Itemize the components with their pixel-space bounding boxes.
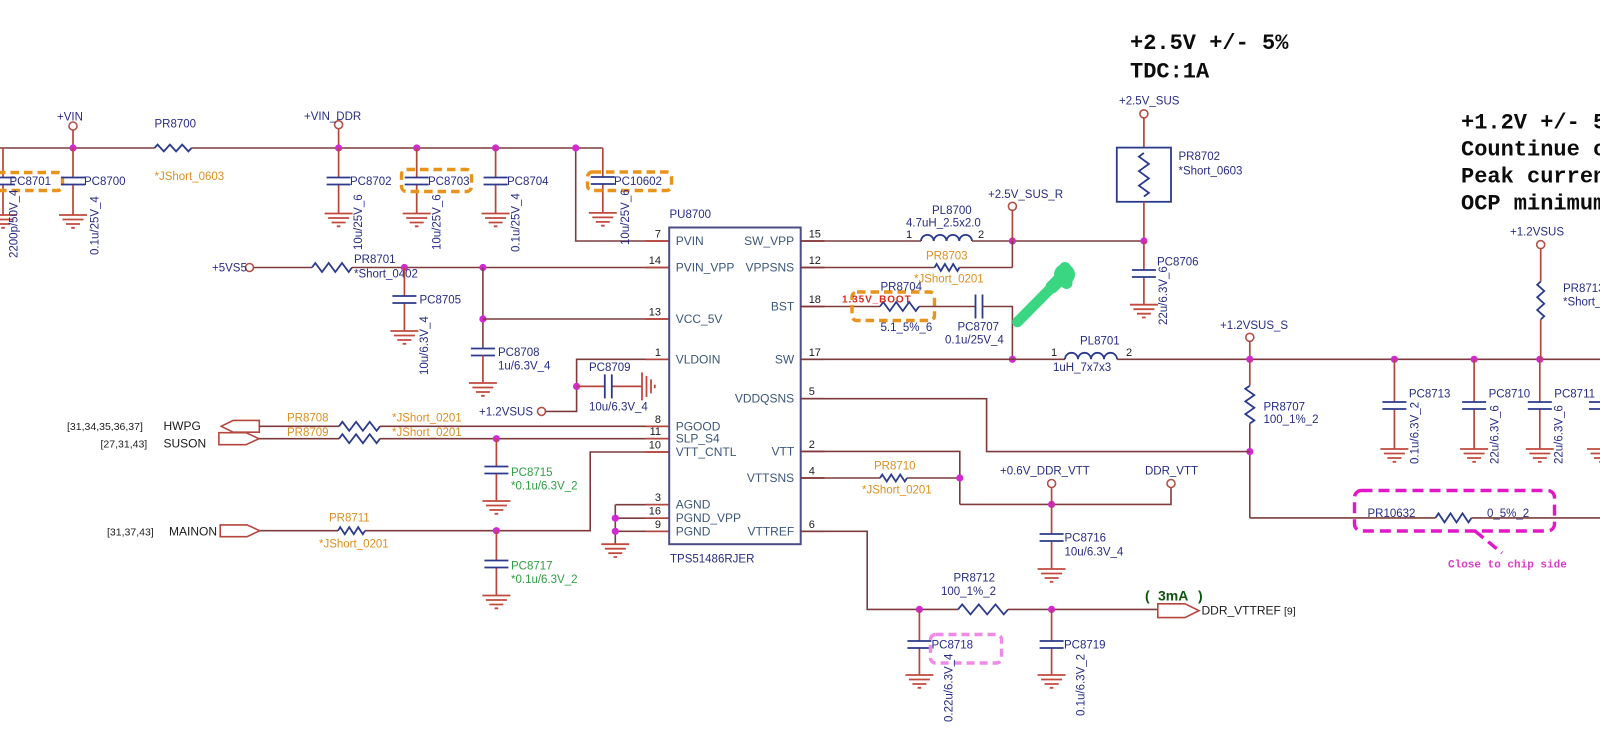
wire +2.5V_SUS_R riser (1011, 210, 1013, 241)
svg-text:Peak curren: Peak curren (1461, 165, 1600, 190)
svg-text:VTTREF: VTTREF (748, 524, 795, 538)
svg-text:PC8700: PC8700 (84, 176, 126, 188)
wire PR8712 to DDR_VTTREF arrow (1008, 608, 1158, 610)
wire ground bus vertical (614, 505, 616, 545)
svg-text:VDDQSNS: VDDQSNS (735, 392, 794, 406)
ground under PC8715 (482, 501, 510, 514)
wire PR8710 to VTT node (907, 477, 960, 479)
capacitor PC10602 plates (591, 177, 615, 184)
capacitor PC8708 plates (471, 349, 495, 356)
terminal DDR_VTT (1167, 480, 1175, 488)
junction PC8713 node (1391, 356, 1398, 363)
svg-text:PGND: PGND (676, 524, 711, 538)
capacitor PC8705 plates (392, 296, 416, 303)
junction PC8711 node (1536, 356, 1543, 363)
svg-text:VTT: VTT (772, 444, 795, 458)
wire PR8713 to rail (1540, 320, 1542, 360)
svg-text:Countinue cu: Countinue cu (1461, 138, 1600, 163)
pink dashed box around PC8718 (931, 635, 1002, 664)
svg-text:*Short_0402: *Short_0402 (1563, 297, 1600, 309)
wire PL8700 to +2.5V_SUS node (972, 240, 1144, 242)
capacitor PC8719 plates (1040, 641, 1064, 648)
junction PC8710 node (1471, 356, 1478, 363)
wire PR8702 to rail (1143, 202, 1145, 241)
ground under PC8713 (1380, 449, 1408, 462)
resistor PR8702 zigzag (1139, 153, 1149, 197)
wire +1.2VSUS_S riser (1249, 341, 1251, 359)
wire SW_VPP pin 15 to PL8700 (801, 240, 921, 242)
svg-text:[27,31,43]: [27,31,43] (101, 439, 148, 451)
resistor PR8710 (880, 475, 907, 482)
ground under PC8702 (325, 214, 353, 227)
capacitor PC8701 plates (0, 178, 15, 185)
svg-text:PR8702: PR8702 (1179, 151, 1221, 163)
svg-text:7: 7 (655, 229, 661, 241)
svg-text:17: 17 (809, 347, 821, 359)
svg-text:PR8708: PR8708 (287, 413, 329, 425)
svg-text:10u/25V_6: 10u/25V_6 (432, 194, 444, 250)
orange dashed box around PC10602 (588, 172, 672, 191)
junction PC8718 node (916, 606, 923, 613)
resistor PR8700 (155, 145, 192, 152)
svg-text:100_1%_2: 100_1%_2 (1264, 414, 1319, 426)
svg-text:14: 14 (649, 255, 661, 267)
wire lead capacitor PC8706 (1143, 241, 1145, 305)
resistor PR8702 box (1117, 148, 1171, 202)
svg-text:22u/6.3V_6: 22u/6.3V_6 (1158, 266, 1170, 325)
ground under PC8705 (390, 331, 418, 344)
junction PC8703 node (413, 144, 420, 151)
port arrow MAINON (220, 525, 260, 537)
svg-text:10u/25V_6: 10u/25V_6 (620, 189, 632, 245)
svg-text:100_1%_2: 100_1%_2 (941, 586, 996, 598)
svg-text:PC8713: PC8713 (1409, 389, 1451, 401)
orange dashed box around PC8703 (402, 170, 472, 192)
svg-text:VTT_CNTL: VTT_CNTL (676, 445, 737, 459)
wire +1.2VSUS to PR8713 (1540, 249, 1542, 282)
svg-text:PR8700: PR8700 (155, 119, 197, 131)
capacitor PC8703 plates (405, 178, 429, 185)
wire PR8708 to PGOOD pin 8 (380, 425, 669, 427)
ground under PC8708 (469, 383, 497, 396)
resistor PR10632 (1436, 513, 1472, 522)
svg-text:*JShort_0201: *JShort_0201 (319, 539, 389, 551)
wire +2.5V_SUS to PR8702 (1143, 118, 1145, 148)
wire +VIN rail left segment (0, 147, 155, 149)
svg-text:+2.5V +/- 5%: +2.5V +/- 5% (1130, 31, 1289, 56)
svg-text:PC8710: PC8710 (1489, 389, 1531, 401)
svg-text:2: 2 (809, 439, 815, 451)
svg-text:VPPSNS: VPPSNS (746, 261, 795, 275)
resistor PR8711 (338, 527, 365, 534)
svg-text:VCC_5V: VCC_5V (676, 312, 723, 326)
svg-text:22u/6.3V_6: 22u/6.3V_6 (1490, 405, 1502, 464)
svg-text:+1.2VSUS: +1.2VSUS (479, 407, 533, 419)
resistor PR8707 (1245, 386, 1254, 424)
svg-text:*0.1u/6.3V_2: *0.1u/6.3V_2 (511, 574, 578, 586)
junction PC8719 node (1048, 606, 1055, 613)
junction +1.2VSUS_S node (1246, 356, 1253, 363)
svg-text:PC8708: PC8708 (498, 347, 540, 359)
resistor PR8708 (339, 422, 380, 431)
wire VPPSNS pin 12 to PR8703 (801, 267, 935, 269)
wire PL8701 to +1.2VSUS_S rail (1117, 358, 1600, 360)
wire lead capacitor PC10602 (602, 148, 604, 213)
junction PC8704 node (492, 144, 499, 151)
svg-text:0.1u/25V_4: 0.1u/25V_4 (90, 196, 102, 255)
wire VTT pin 2 (801, 451, 960, 504)
resistor PR8703 (935, 264, 960, 271)
junction +VIN node (69, 144, 76, 151)
wire HWPG to PR8708 (259, 425, 339, 427)
svg-text:TPS51486RJER: TPS51486RJER (670, 554, 754, 566)
svg-text:DDR_VTT: DDR_VTT (1145, 466, 1198, 478)
ground under PC8700 (59, 215, 87, 228)
svg-text:PC8701: PC8701 (10, 176, 52, 188)
svg-text:*JShort_0201: *JShort_0201 (392, 413, 462, 425)
svg-text:): ) (1198, 588, 1203, 604)
svg-text:2: 2 (1126, 347, 1132, 359)
junction +2.5V_SUS node (1140, 237, 1147, 244)
svg-text:SUSON: SUSON (164, 437, 207, 451)
ground under PC8710 (1460, 449, 1488, 462)
svg-text:13: 13 (649, 307, 661, 319)
op-amp U1 chip PU8700 TPS51486RJER body (669, 228, 801, 545)
capacitor PC8713 plates (1382, 402, 1406, 409)
wire PGND_VPP pin 16 (615, 517, 669, 519)
wire SW pin 17 to PL8701 (801, 358, 1065, 360)
junction PC8709 node (573, 383, 580, 390)
svg-text:PGND_VPP: PGND_VPP (676, 511, 741, 525)
svg-text:SW: SW (775, 352, 795, 366)
wire PR8703 to riser (960, 267, 1013, 269)
junction PC8715 node (493, 435, 500, 442)
wire VDDQSNS pin 5 (801, 399, 1250, 452)
wire lead capacitor PC8717 (495, 531, 497, 596)
svg-text:HWPG: HWPG (164, 419, 201, 433)
svg-text:VLDOIN: VLDOIN (676, 352, 721, 366)
junction VDDQSNS sense node (1246, 448, 1253, 455)
svg-text:PC8719: PC8719 (1064, 640, 1106, 652)
wire lead capacitor PC8713 (1393, 359, 1395, 449)
wire lead capacitor PC8719 (1051, 609, 1053, 675)
svg-text:10u/25V_6: 10u/25V_6 (353, 194, 365, 250)
svg-text:SLP_S4: SLP_S4 (676, 432, 720, 446)
capacitor PC8707 plates (976, 295, 983, 319)
svg-text:TDC:1A: TDC:1A (1130, 60, 1210, 85)
svg-text:PR8704: PR8704 (881, 282, 923, 294)
svg-text:*JShort_0201: *JShort_0201 (862, 485, 932, 497)
green highlighter mark (1017, 287, 1052, 322)
svg-text:PC10602: PC10602 (614, 176, 662, 188)
capacitor PC8709 plates (605, 374, 612, 398)
wire PR8704 to PC8707 (919, 306, 976, 308)
svg-text:2: 2 (978, 229, 984, 241)
wire +VIN rail down to PVIN pin 7 (576, 148, 670, 241)
orange dashed box around PC8701 (0, 173, 63, 191)
wire VTTREF pin 6 (801, 531, 958, 609)
svg-text:PC8702: PC8702 (350, 176, 392, 188)
svg-text:PR8709: PR8709 (287, 427, 329, 439)
wire lead capacitor PC8704 (495, 148, 497, 214)
resistor PR8713 (1537, 282, 1544, 320)
svg-text:3mA: 3mA (1158, 588, 1188, 604)
terminal +5VS5 (246, 264, 254, 272)
svg-text:DDR_VTTREF: DDR_VTTREF (1202, 604, 1281, 618)
wire lead capacitor PC8703 (416, 148, 418, 214)
junction VTTSNS node (956, 474, 963, 481)
wire PR10632 line right (1472, 517, 1600, 519)
wire lead capacitor PC8716 (1051, 504, 1053, 569)
port arrow SUSON (219, 433, 259, 445)
junction VCC_5V pin branch (479, 315, 486, 322)
wire lead capacitor PC8711 (1539, 359, 1541, 449)
svg-text:1: 1 (1051, 347, 1057, 359)
junction +0.6V_DDR_VTT node (1048, 501, 1055, 508)
inductor PL8700 (921, 235, 972, 241)
junction PC8717 node (493, 527, 500, 534)
capacitor PC8706 plates (1132, 270, 1156, 277)
svg-text:PR8713: PR8713 (1563, 283, 1600, 295)
wire lead capacitor PC8708 lower (482, 356, 484, 384)
capacitor PC8712 plates (1589, 402, 1600, 409)
svg-text:+1.2VSUS: +1.2VSUS (1510, 227, 1564, 239)
svg-text:1: 1 (906, 229, 912, 241)
terminal +VIN (69, 122, 77, 130)
svg-text:8: 8 (655, 414, 661, 426)
svg-text:2200p/50V_4: 2200p/50V_4 (9, 189, 21, 258)
ground right of PC8709 (642, 372, 655, 400)
terminal +VIN_DDR (335, 121, 343, 129)
capacitor PC8704 plates (484, 178, 508, 185)
svg-text:PL8701: PL8701 (1080, 336, 1120, 348)
wire +VIN terminal riser (72, 130, 74, 148)
ground under PC8711 (1526, 449, 1554, 462)
junction BST-SW node (1009, 356, 1016, 363)
wire PC8707 down to SW node (983, 307, 1013, 360)
svg-text:PVIN: PVIN (676, 234, 704, 248)
svg-text:PR8710: PR8710 (874, 461, 916, 473)
svg-text:PC8711: PC8711 (1554, 389, 1595, 401)
capacitor PC8700 plates (61, 178, 85, 185)
svg-text:18: 18 (809, 294, 821, 306)
wire BST pin 18 to PR8704 (801, 306, 880, 308)
svg-text:0_5%_2: 0_5%_2 (1487, 508, 1529, 520)
resistor PR8704 (880, 302, 919, 311)
svg-text:PC8709: PC8709 (589, 362, 631, 374)
svg-text:OCP minimum: OCP minimum (1461, 192, 1600, 217)
wire lead capacitor PC8718 (918, 609, 920, 675)
wire stub to PC10602 (576, 147, 603, 149)
terminal +1.2VSUS left (538, 407, 546, 415)
wire VTT bus to DDR_VTT (960, 488, 1171, 505)
svg-text:+5VS5: +5VS5 (212, 263, 247, 275)
svg-text:10: 10 (649, 440, 661, 452)
ground under chip AGND (601, 544, 629, 557)
svg-text:PU8700: PU8700 (670, 209, 712, 221)
junction +VIN_DDR node (335, 144, 342, 151)
svg-text:16: 16 (649, 506, 661, 518)
junction PC10602 node (572, 144, 579, 151)
svg-text:PL8700: PL8700 (932, 205, 972, 217)
terminal +2.5V_SUS_R (1008, 202, 1016, 210)
svg-text:4: 4 (809, 466, 815, 478)
capacitor PC8717 plates (484, 561, 508, 568)
svg-text:0.1u/6.3V_2: 0.1u/6.3V_2 (1076, 654, 1088, 716)
terminal +0.6V_DDR_VTT (1048, 480, 1056, 488)
junction +2.5V_SUS_R node (1009, 237, 1016, 244)
svg-text:SW_VPP: SW_VPP (744, 234, 794, 248)
svg-text:PC8707: PC8707 (958, 322, 1000, 334)
port arrow DDR_VTTREF (1158, 604, 1199, 618)
svg-text:12: 12 (809, 255, 821, 267)
svg-text:PC8717: PC8717 (511, 561, 553, 573)
junction PGND (612, 528, 619, 535)
ground under PC8719 (1038, 675, 1066, 688)
inductor PL8701 (1065, 353, 1117, 359)
svg-text:1uH_7x7x3: 1uH_7x7x3 (1053, 362, 1111, 374)
svg-text:+VIN: +VIN (57, 112, 83, 124)
svg-text:[9]: [9] (1284, 606, 1296, 618)
wire PR8701 to PVIN_VPP pin 14 (352, 267, 669, 269)
svg-text:PR8712: PR8712 (954, 573, 996, 585)
svg-text:Close to chip side: Close to chip side (1448, 560, 1567, 572)
capacitor PC8710 plates (1462, 402, 1486, 409)
wire PR8711 to VTT_CNTL pin 10 (365, 452, 669, 531)
svg-text:10u/6.3V_4: 10u/6.3V_4 (589, 402, 648, 414)
wire AGND pin 3 (615, 504, 669, 506)
wire lead capacitor PC8700 (72, 148, 74, 215)
junction PGND_VPP (612, 515, 619, 522)
magenta leader line (1475, 531, 1502, 553)
svg-text:PC8703: PC8703 (428, 176, 470, 188)
capacitor PC8715 plates (484, 467, 508, 474)
terminal +2.5V_SUS (1140, 110, 1148, 118)
port arrow HWPG (221, 420, 259, 432)
wire lead capacitor PC8715 (495, 439, 497, 501)
svg-text:PR8701: PR8701 (354, 254, 396, 266)
svg-text:+VIN_DDR: +VIN_DDR (304, 111, 361, 123)
svg-text:+2.5V_SUS_R: +2.5V_SUS_R (988, 189, 1063, 201)
wire lead capacitor PC8709 (577, 385, 642, 387)
svg-text:*JShort_0603: *JShort_0603 (155, 171, 225, 183)
ground under PC8704 (482, 214, 510, 227)
wire PR8707 down to PR10632 line (1249, 424, 1251, 518)
svg-text:0.1u/25V_4: 0.1u/25V_4 (511, 193, 523, 252)
svg-text:[31,37,43]: [31,37,43] (107, 527, 154, 539)
svg-text:PC8718: PC8718 (932, 640, 974, 652)
ground under PC8717 (482, 596, 510, 609)
terminal +1.2VSUS right (1537, 241, 1545, 249)
svg-text:PR8707: PR8707 (1264, 402, 1306, 414)
svg-text:0.1u/25V_4: 0.1u/25V_4 (945, 335, 1004, 347)
svg-text:BST: BST (771, 300, 795, 314)
svg-text:*Short_0402: *Short_0402 (354, 269, 418, 281)
svg-text:4.7uH_2.5x2.0: 4.7uH_2.5x2.0 (906, 218, 981, 230)
svg-text:+1.2VSUS_S: +1.2VSUS_S (1220, 320, 1288, 332)
wire +VIN rail middle segment (192, 147, 576, 149)
svg-text:1u/6.3V_4: 1u/6.3V_4 (498, 361, 551, 373)
magenta dashed box around PR10632 (1355, 491, 1555, 532)
svg-text:*JShort_0201: *JShort_0201 (914, 274, 984, 286)
svg-text:6: 6 (809, 519, 815, 531)
svg-text:*JShort_0201: *JShort_0201 (392, 427, 462, 439)
svg-text:PC8705: PC8705 (420, 295, 462, 307)
wire lead capacitor PC8701 (2, 148, 4, 215)
svg-text:+2.5V_SUS: +2.5V_SUS (1119, 96, 1180, 108)
wire lead capacitor PC8710 (1473, 359, 1475, 449)
svg-text:11: 11 (650, 426, 661, 438)
svg-text:PC8716: PC8716 (1065, 533, 1107, 545)
resistor PR8712 (958, 604, 1008, 614)
ground under PC8716 (1038, 569, 1066, 582)
svg-text:PC8715: PC8715 (511, 467, 553, 479)
wire to PR8707 (1249, 359, 1251, 385)
capacitor PC8711 plates (1528, 402, 1552, 409)
wire +0.6V_DDR_VTT riser (1051, 488, 1053, 505)
svg-text:AGND: AGND (676, 498, 711, 512)
pin stubs left side (646, 241, 670, 531)
svg-text:10u/6.3V_4: 10u/6.3V_4 (1065, 547, 1124, 559)
svg-text:9: 9 (655, 519, 661, 531)
wire MAINON to PR8711 (260, 530, 338, 532)
wire PR10632 line left (1250, 517, 1436, 519)
svg-text:*Short_0603: *Short_0603 (1179, 166, 1243, 178)
wire +1.2VSUS to VLDOIN pin 1 (546, 359, 670, 411)
pin stubs right side (801, 241, 825, 531)
wire +VIN_DDR terminal riser (338, 129, 340, 148)
junction VCC branch node (479, 264, 486, 271)
svg-text:+0.6V_DDR_VTT: +0.6V_DDR_VTT (1000, 466, 1090, 478)
wire VCC_5V branch down (482, 268, 484, 349)
svg-text:*0.1u/6.3V_2: *0.1u/6.3V_2 (511, 481, 578, 493)
svg-text:0.1u/6.3V_2: 0.1u/6.3V_2 (1410, 402, 1422, 464)
capacitor PC8716 plates (1040, 534, 1064, 541)
orange dashed box around PR8704 (852, 292, 935, 321)
wire to VCC_5V pin 13 (483, 318, 669, 320)
svg-text:1.35V_BOOT: 1.35V_BOOT (842, 295, 912, 306)
capacitor PC8702 plates (327, 178, 351, 185)
junction PC8705 node (401, 264, 408, 271)
wire PGND pin 9 (615, 530, 669, 532)
svg-text:1: 1 (655, 347, 661, 359)
ground under PC8706 (1130, 305, 1158, 318)
svg-text:5: 5 (809, 386, 815, 398)
resistor PR8701 (312, 263, 352, 272)
svg-text:PR10632: PR10632 (1368, 508, 1416, 520)
ground under PC8703 (403, 214, 431, 227)
svg-text:+1.2V +/- 5%: +1.2V +/- 5% (1461, 111, 1600, 136)
capacitor PC8718 plates (907, 641, 931, 648)
svg-text:15: 15 (809, 229, 821, 241)
svg-text:22u/6.3V_6: 22u/6.3V_6 (1554, 405, 1566, 464)
svg-text:PR8711: PR8711 (329, 513, 370, 525)
wire PR8709 to SLP_S4 pin 11 (380, 438, 669, 440)
wire lead capacitor PC8702 (338, 148, 340, 214)
wire lead capacitor PC8705 (403, 268, 405, 332)
svg-text:3: 3 (655, 492, 661, 504)
svg-text:10u/6.3V_4: 10u/6.3V_4 (419, 316, 431, 375)
svg-text:PR8703: PR8703 (926, 251, 968, 263)
svg-text:(: ( (1145, 588, 1150, 604)
wire VTTSNS pin 4 to PR8710 (801, 477, 880, 479)
svg-text:5.1_5%_6: 5.1_5%_6 (881, 322, 933, 334)
ground under PC8701 (0, 215, 17, 228)
svg-text:0.22u/6.3V_4: 0.22u/6.3V_4 (944, 653, 956, 722)
ground under PC8718 (905, 675, 933, 688)
svg-text:PC8704: PC8704 (507, 176, 549, 188)
svg-text:VTTSNS: VTTSNS (747, 471, 794, 485)
